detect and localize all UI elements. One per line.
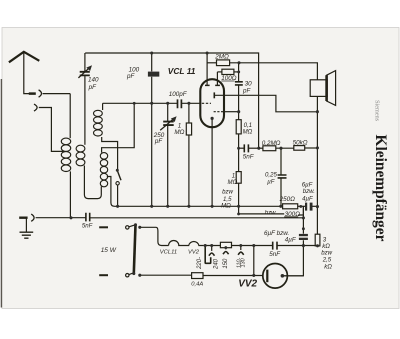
svg-text:MΩ: MΩ — [221, 202, 231, 209]
svg-text:150: 150 — [223, 258, 229, 269]
svg-text:0,25: 0,25 — [265, 171, 277, 178]
svg-text:kΩ: kΩ — [324, 264, 332, 271]
svg-text:MΩ: MΩ — [228, 179, 238, 186]
svg-text:2,5: 2,5 — [322, 257, 332, 264]
svg-text:bzw: bzw — [222, 188, 233, 195]
svg-text:pF: pF — [242, 87, 252, 94]
svg-text:MΩ: MΩ — [174, 129, 184, 136]
svg-text:15 W: 15 W — [101, 247, 117, 254]
svg-text:pF: pF — [88, 84, 98, 91]
svg-text:130: 130 — [240, 258, 246, 267]
svg-text:Kleinempfänger: Kleinempfänger — [372, 135, 389, 242]
svg-text:100pF: 100pF — [169, 91, 188, 98]
svg-text:bzw.: bzw. — [303, 188, 315, 195]
svg-text:VV2: VV2 — [188, 250, 200, 256]
svg-text:0,2MΩ: 0,2MΩ — [262, 140, 281, 147]
svg-text:pF: pF — [126, 73, 136, 80]
svg-text:pF: pF — [154, 138, 164, 145]
svg-text:250Ω: 250Ω — [279, 196, 296, 203]
svg-text:VV2: VV2 — [238, 279, 257, 290]
svg-text:5nF: 5nF — [82, 223, 94, 230]
svg-text:0,4A: 0,4A — [191, 282, 203, 288]
svg-text:2MΩ: 2MΩ — [214, 53, 229, 60]
svg-text:Siemens: Siemens — [374, 100, 381, 122]
svg-text:140: 140 — [88, 77, 99, 84]
svg-text:µF: µF — [267, 178, 276, 185]
svg-text:MΩ: MΩ — [243, 129, 253, 136]
svg-text:5nF: 5nF — [269, 251, 281, 258]
svg-text:4µF: 4µF — [285, 237, 297, 244]
svg-text:50kΩ: 50kΩ — [293, 140, 308, 147]
svg-text:4µF: 4µF — [302, 195, 314, 202]
svg-text:300Ω: 300Ω — [285, 211, 301, 218]
svg-text:240: 240 — [214, 258, 220, 270]
svg-text:220-: 220- — [197, 257, 203, 270]
svg-text:5nF: 5nF — [243, 153, 255, 160]
svg-text:VCL11: VCL11 — [160, 250, 177, 256]
svg-text:VCL 11: VCL 11 — [168, 66, 196, 76]
svg-text:30: 30 — [245, 80, 253, 87]
svg-text:bzw.: bzw. — [265, 210, 277, 217]
